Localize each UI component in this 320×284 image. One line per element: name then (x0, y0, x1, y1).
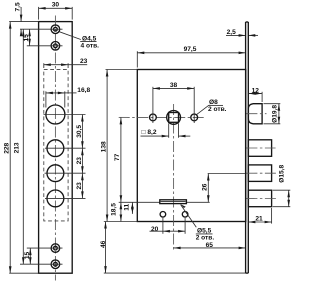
svg-text:7,5: 7,5 (14, 2, 21, 11)
hole Ø8 right (191, 114, 198, 121)
hole Ø5,5 right (182, 212, 188, 218)
svg-text:Ø5,5: Ø5,5 (197, 228, 212, 235)
axis line circle 2 (45, 147, 86, 149)
dim 97,5 (137, 52, 245, 54)
deadbolt 3 axis (246, 172, 277, 174)
svg-text:23: 23 (76, 182, 83, 190)
svg-text:21: 21 (255, 215, 263, 222)
axis line screw hole top2 (27, 45, 63, 47)
leader Ø8 2 отв. (197, 105, 209, 114)
hole Ø5,5 left (160, 212, 166, 218)
axis line circle 3 (45, 172, 86, 174)
faceplate edge bottom cap (246, 272, 249, 274)
slot line extension left (119, 201, 160, 203)
plate top extension to left dims (9, 21, 38, 23)
bolt hole circle 4 (47, 190, 64, 207)
dim Ø15,8 (288, 190, 290, 207)
dim Ø15,8 extension lines (273, 189, 291, 191)
dashed lock-case hidden rect (44, 69, 68, 221)
dim 21 (248, 221, 271, 223)
screw hole top 1 (51, 25, 60, 34)
dim Ø19,8 (278, 104, 280, 124)
dim Ø19,8 extension lines (264, 103, 281, 105)
deadbolt 1 (top, round head) (248, 104, 262, 124)
dim 30,5 (81, 115, 83, 149)
axis line circle 1 (44, 114, 86, 116)
dim 97,5 extension line (136, 51, 138, 67)
bolt hole circle 1 (46, 105, 65, 124)
svg-text:12: 12 (252, 88, 260, 95)
dim 26 feature line (208, 173, 246, 175)
svg-text:2,5: 2,5 (227, 29, 236, 36)
svg-text:4 отв.: 4 отв. (81, 42, 100, 49)
dim 20 (150, 230, 163, 232)
dim 65 (174, 247, 246, 249)
dim 20 extension lines (162, 218, 164, 234)
deadbolt 2 (248, 140, 271, 157)
svg-text:2 отв.: 2 отв. (208, 106, 227, 113)
svg-text:20: 20 (151, 226, 159, 233)
dim 77 (120, 117, 122, 202)
svg-text:213: 213 (14, 142, 21, 153)
axis line circle 4 (45, 197, 86, 199)
svg-text:97,5: 97,5 (184, 46, 197, 53)
dim 15 bottom (29, 248, 31, 264)
lock case outline (137, 70, 245, 222)
axis line screw hole bottom1 (27, 247, 63, 249)
svg-text:11: 11 (124, 203, 131, 210)
svg-text:23: 23 (76, 157, 83, 165)
dim 8,2 square (141, 135, 169, 137)
deadbolt 2 axis (246, 147, 275, 149)
dim 30 extension lines (38, 7, 40, 20)
svg-text:26: 26 (201, 183, 208, 191)
svg-text:65: 65 (206, 242, 214, 249)
bolt hole circle 2 (47, 140, 64, 157)
dim 11 (131, 202, 133, 214)
dim 228 (9, 22, 11, 274)
svg-text:15: 15 (23, 34, 30, 42)
plate bottom extension to left dims (9, 272, 38, 274)
leader Ø4,5 (59, 32, 81, 40)
deadbolt 3 (248, 165, 271, 182)
deadbolt 1 axis (246, 113, 266, 115)
svg-text:138: 138 (101, 141, 108, 152)
dim 23 top (44, 64, 68, 66)
vertical tick hole Ø8 left / dim 38 ext (152, 87, 154, 123)
dim 21 extension (271, 208, 273, 224)
svg-text:Ø4,5: Ø4,5 (82, 35, 97, 42)
screw hole bottom 1 (51, 244, 60, 253)
svg-text:18,5: 18,5 (110, 203, 117, 216)
screw hole bottom 2 (51, 260, 60, 269)
case vertical center line (173, 104, 175, 251)
svg-text:228: 228 (3, 142, 10, 153)
dim 23 extension lines (dashed rect) (43, 63, 45, 68)
deadbolt 4 axis (246, 198, 277, 200)
faceplate outline (39, 22, 73, 274)
dim 18,5 (120, 202, 122, 221)
screw hole top 2 (51, 42, 60, 51)
svg-text:□ 8,2: □ 8,2 (142, 129, 157, 136)
svg-text:30,5: 30,5 (76, 125, 83, 138)
svg-text:Ø19,8: Ø19,8 (272, 105, 279, 123)
dim 30 (39, 7, 73, 9)
dim 23 middle (81, 148, 83, 173)
dim 38 (153, 87, 194, 89)
dim 16,8 (46, 92, 65, 94)
svg-text:23: 23 (80, 58, 88, 65)
dim 7,5 (20, 7, 22, 22)
svg-text:77: 77 (114, 153, 121, 161)
svg-text:2 отв.: 2 отв. (196, 235, 215, 242)
dim 2,5 (226, 34, 246, 36)
vertical tick hole Ø8 right / dim 38 ext (193, 87, 195, 123)
case top extension to 138 dim (106, 69, 138, 71)
dim 46 (105, 222, 107, 274)
bolt hole circle 3 (47, 165, 64, 182)
svg-text:15: 15 (24, 252, 31, 260)
axis line screw hole bottom2 (20, 263, 63, 265)
faceplate edge top cap (246, 21, 249, 23)
axis line screw hole top1 (20, 28, 63, 30)
case bottom extension to 138 dim (104, 221, 138, 223)
bottom extension line to plate (104, 272, 246, 274)
svg-text:Ø15,8: Ø15,8 (279, 164, 286, 182)
hole Ø8 left (150, 114, 157, 121)
follower hub circle (167, 111, 181, 125)
faceplate edge left face (245, 22, 247, 273)
dim 16,8 extension lines (45, 91, 47, 107)
leader Ø5,5 2 отв. (181, 205, 197, 228)
case hole axis horizontal (119, 116, 206, 118)
svg-text:38: 38 (170, 82, 178, 89)
slot line extension right (186, 201, 209, 203)
crossbar plate (160, 200, 187, 204)
dim 15 top (29, 29, 31, 46)
dim 23 lower (81, 173, 83, 198)
svg-text:30: 30 (52, 1, 60, 8)
dim 12 extension (261, 92, 263, 102)
svg-text:46: 46 (100, 240, 107, 248)
faceplate vertical center line (54, 16, 56, 281)
square hole 8,2 (169, 113, 179, 123)
deadbolt 4 (248, 190, 271, 207)
dim 26 (207, 174, 209, 203)
dim 138 (106, 70, 108, 222)
dim 213 (22, 29, 24, 264)
faceplate edge right face (247, 22, 249, 273)
svg-text:16,8: 16,8 (77, 87, 90, 94)
svg-text:Ø8: Ø8 (209, 99, 218, 106)
square dim extension lines (168, 123, 170, 138)
dim 12 (248, 93, 262, 95)
